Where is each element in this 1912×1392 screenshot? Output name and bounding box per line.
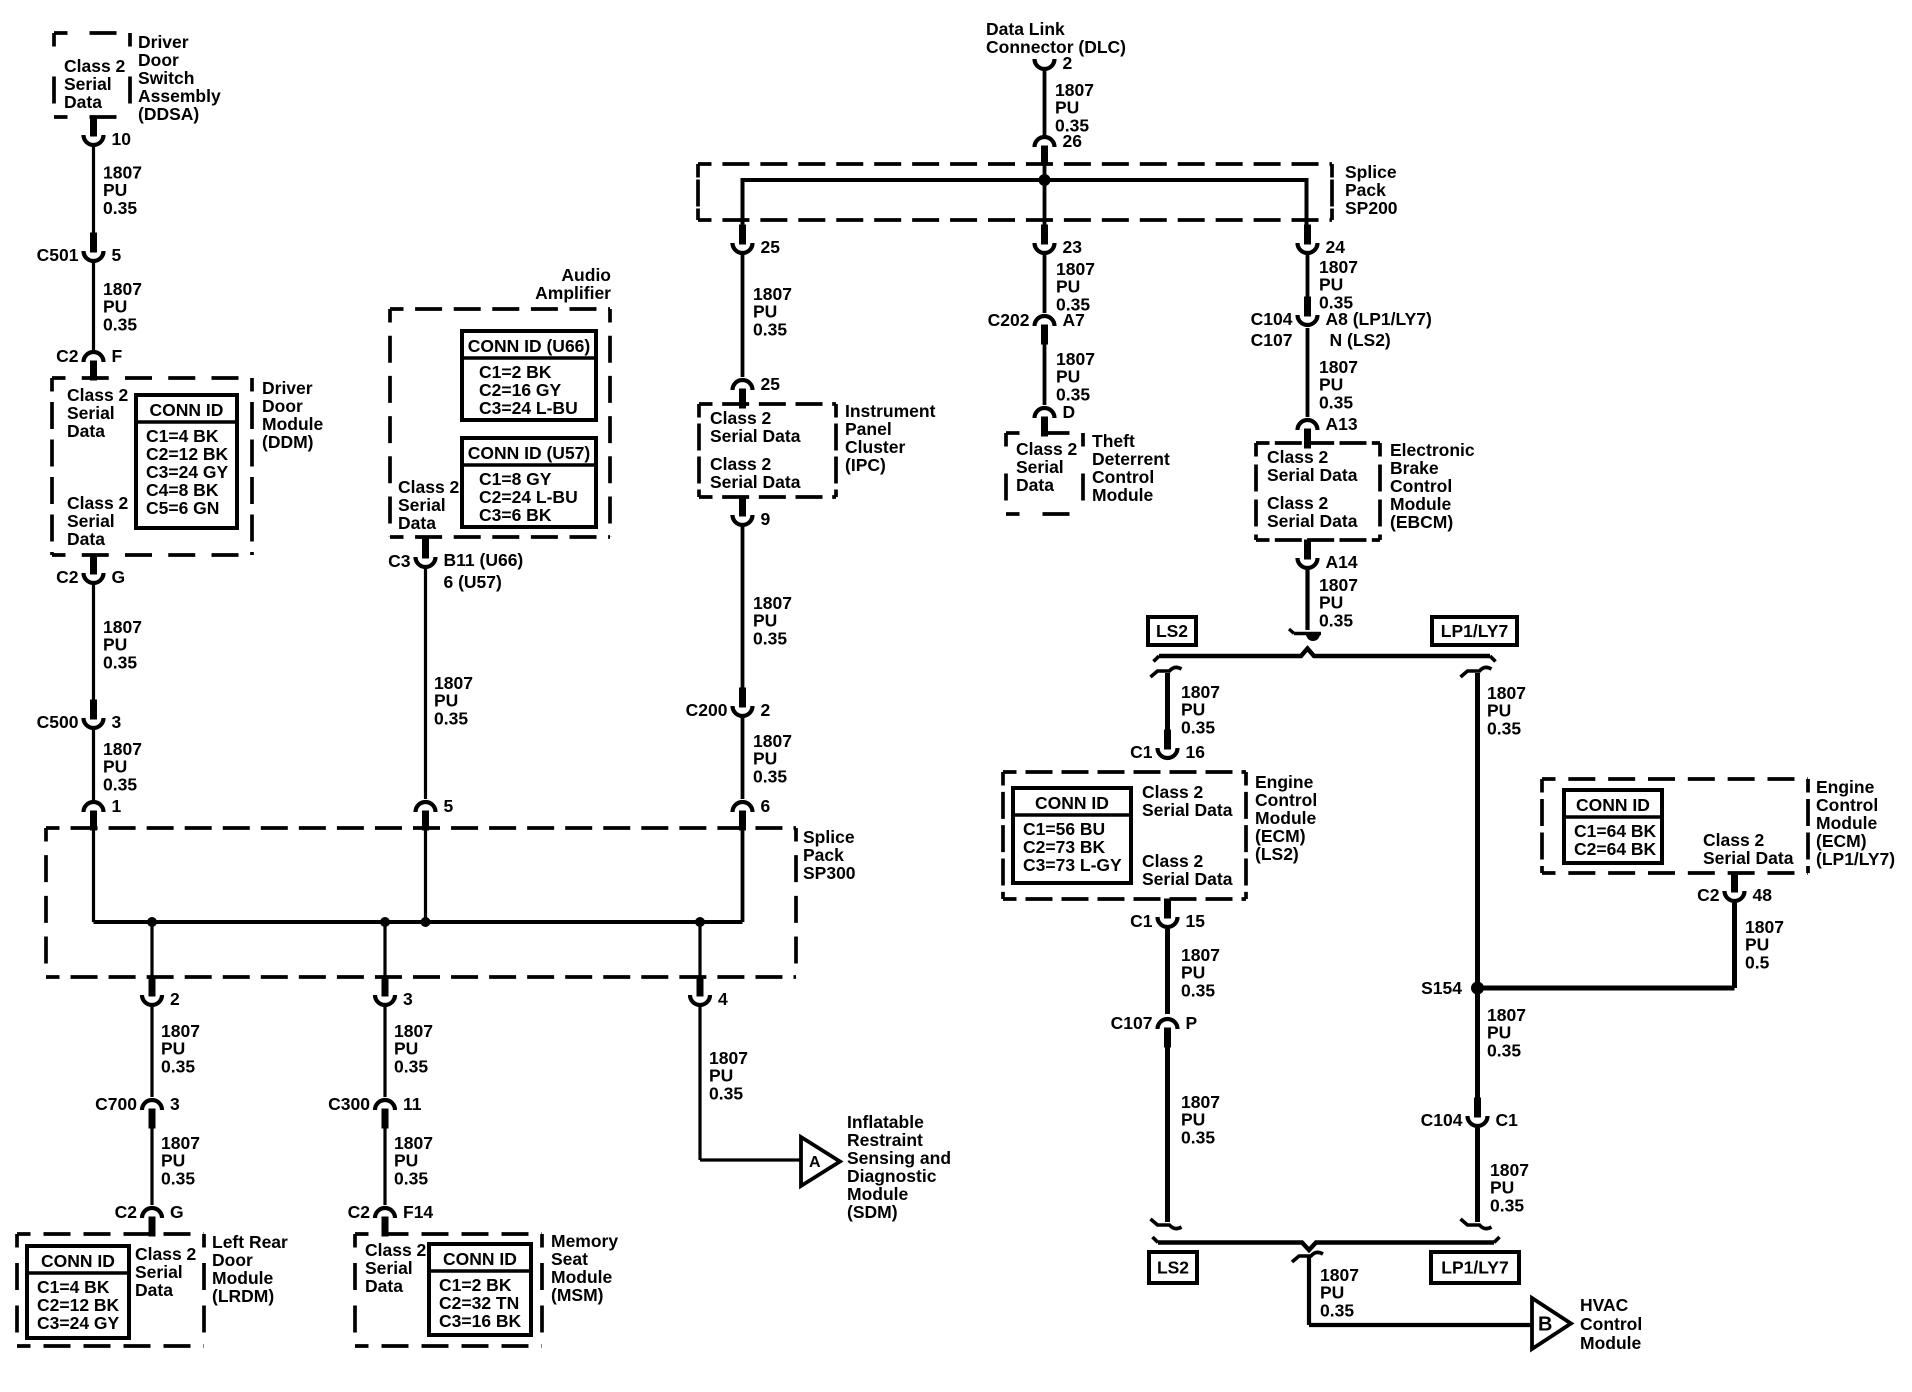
wire C200 to SP300 pin 6 [741,718,745,799]
svg-text:Class 2: Class 2 [1016,439,1078,459]
svg-text:Data: Data [1016,475,1054,495]
svg-text:S154: S154 [1421,978,1462,998]
svg-text:24: 24 [1326,237,1346,257]
wire to HVAC arrow start hook [1292,1252,1323,1262]
svg-text:G: G [170,1202,184,1222]
connector C2 pin 48 (ECM LP1/LY7) [1697,873,1772,906]
svg-text:Module: Module [551,1267,613,1287]
svg-text:(DDM): (DDM) [262,432,314,452]
splice pack box SP300 [46,828,796,977]
svg-text:0.35: 0.35 [709,1083,743,1103]
svg-text:2: 2 [1063,53,1073,73]
connector SP200 pin 24 [1298,225,1346,258]
svg-text:Splice: Splice [1345,162,1397,182]
wire C202 to theft module [1043,344,1047,405]
svg-text:Serial Data: Serial Data [1142,800,1233,820]
svg-text:C700: C700 [95,1094,137,1114]
svg-text:C1=8 GY: C1=8 GY [479,469,552,489]
svg-text:Engine: Engine [1816,777,1875,797]
svg-text:C2=73 BK: C2=73 BK [1023,837,1106,857]
svg-text:Class 2: Class 2 [710,408,772,428]
svg-text:C3=73 L-GY: C3=73 L-GY [1023,855,1122,875]
svg-text:C3=16 BK: C3=16 BK [439,1311,522,1331]
svg-text:11: 11 [403,1094,422,1114]
wire LS2 branch end hook [1151,1219,1182,1229]
svg-text:16: 16 [1186,742,1206,762]
svg-text:Cluster: Cluster [845,437,905,457]
svg-text:LP1/LY7: LP1/LY7 [1441,621,1508,641]
svg-text:C1=4 BK: C1=4 BK [37,1277,110,1297]
svg-text:(LP1/LY7): (LP1/LY7) [1816,849,1895,869]
svg-text:(EBCM): (EBCM) [1390,512,1453,532]
connector IPC pin 9 [733,497,771,530]
svg-text:CONN ID: CONN ID [1035,793,1109,813]
svg-text:A13: A13 [1326,414,1358,434]
svg-text:Seat: Seat [551,1249,588,1269]
svg-text:0.35: 0.35 [1487,718,1521,738]
svg-text:C1=64 BK: C1=64 BK [1574,821,1657,841]
wire DDSA pin10 to C501 [92,147,95,233]
wire SP200-25 to IPC 25 [741,255,745,377]
svg-text:Serial: Serial [398,495,446,515]
svg-text:Class 2: Class 2 [67,493,129,513]
svg-text:Brake: Brake [1390,458,1439,478]
svg-text:Door: Door [262,396,303,416]
svg-text:C500: C500 [37,712,79,732]
net label LS2 (top) [1148,617,1196,645]
svg-text:0.35: 0.35 [161,1168,195,1188]
module box Audio Amplifier [390,309,610,537]
svg-text:Switch: Switch [138,68,194,88]
net label LP1/LY7 (bottom) [1431,1252,1519,1283]
wire brace split to LS2 and LP1/LY7 branches [1154,649,1496,662]
svg-text:C501: C501 [37,245,79,265]
svg-text:23: 23 [1063,237,1083,257]
svg-text:0.5: 0.5 [1745,952,1770,972]
svg-text:Amplifier: Amplifier [535,283,611,303]
svg-text:0.35: 0.35 [1319,392,1353,412]
splice S154 [1471,982,1484,995]
svg-text:(LRDM): (LRDM) [212,1286,274,1306]
svg-text:A8 (LP1/LY7): A8 (LP1/LY7) [1326,309,1432,329]
svg-text:C5=6 GN: C5=6 GN [146,498,219,518]
svg-text:HVAC: HVAC [1580,1295,1629,1315]
svg-text:C107: C107 [1111,1013,1153,1033]
svg-text:A14: A14 [1326,552,1358,572]
wire C500 to SP300 pin 1 [92,730,95,800]
svg-text:25: 25 [761,237,781,257]
svg-text:C3=24 GY: C3=24 GY [37,1313,120,1333]
connector C2 pin G (DDM) [56,555,125,588]
svg-text:C202: C202 [988,310,1030,330]
wire bus to pin 3 [383,922,386,977]
connector C2 pin F14 (MSM) [348,1202,434,1237]
svg-text:Pack: Pack [803,845,844,865]
svg-text:C2=32 TN: C2=32 TN [439,1293,519,1313]
svg-text:0.35: 0.35 [1319,610,1353,630]
wire C2-48 to S154 [1732,903,1737,988]
svg-text:C300: C300 [328,1094,370,1114]
svg-text:C2=16 GY: C2=16 GY [479,380,562,400]
svg-text:15: 15 [1186,911,1206,931]
svg-text:Module: Module [1816,813,1878,833]
svg-text:Control: Control [1255,790,1317,810]
wire C700 to LRDM C2-G [150,1128,153,1205]
wire end symbol at branch split [1289,629,1321,641]
svg-text:3: 3 [403,989,413,1009]
connector C700 pin 3 [95,1094,180,1129]
svg-text:B: B [1538,1314,1552,1336]
wire C501 to C2-F [92,263,95,350]
svg-text:0.35: 0.35 [753,319,787,339]
arrow B to HVAC [1532,1298,1571,1349]
wire bus to pin 4 [698,922,701,977]
wire to HVAC arrow [1307,1257,1311,1325]
svg-text:Class 2: Class 2 [1267,447,1329,467]
connector pin A14 (EBCM) [1298,540,1358,573]
module box DDSA [54,33,130,117]
svg-text:Serial: Serial [67,511,115,531]
wire IPC 9 to C200 [741,527,745,688]
connector C2 pin G (LRDM) [115,1202,184,1237]
svg-text:Theft: Theft [1092,431,1135,451]
wire LS2 branch to C1-16 [1165,673,1170,730]
svg-text:A7: A7 [1063,310,1085,330]
svg-text:Data: Data [365,1276,403,1296]
net label LS2 (bottom) [1149,1252,1197,1283]
svg-text:Data Link: Data Link [986,19,1065,39]
wire bus to pin 2 [150,922,153,977]
CONN ID table DDM [136,395,237,528]
svg-text:Module: Module [1580,1333,1642,1353]
svg-text:4: 4 [718,989,728,1009]
svg-text:CONN ID: CONN ID [150,400,224,420]
svg-text:C3=6 BK: C3=6 BK [479,505,552,525]
junction dots SP300 bus [147,917,157,927]
connector C104/C107 [1251,297,1432,351]
module box DDM [52,378,252,555]
svg-text:C1: C1 [1130,911,1153,931]
CONN ID table U57 [462,438,596,527]
svg-text:Driver: Driver [262,378,313,398]
svg-text:LP1/LY7: LP1/LY7 [1441,1258,1508,1278]
svg-text:C1: C1 [1130,742,1153,762]
svg-text:(MSM): (MSM) [551,1285,603,1305]
svg-text:Serial: Serial [1016,457,1064,477]
connector C104 pin C1 [1421,1098,1518,1131]
CONN ID table ECM LS2 [1013,788,1131,883]
connector SP200 pin 25 [733,225,781,258]
svg-text:D: D [1063,402,1076,422]
wire SP300 pin6 to bus [741,830,745,922]
svg-text:Serial Data: Serial Data [710,426,801,446]
svg-text:C2=12 BK: C2=12 BK [37,1295,120,1315]
svg-text:0.35: 0.35 [394,1056,428,1076]
svg-text:Memory: Memory [551,1231,618,1251]
svg-text:Module: Module [1390,494,1452,514]
svg-text:C2: C2 [115,1202,138,1222]
CONN ID table ECM LP1/LY7 [1564,790,1662,863]
wire C104/C107 to A13 [1306,328,1310,417]
svg-text:0.35: 0.35 [1487,1040,1521,1060]
svg-text:Data: Data [135,1280,173,1300]
svg-text:LS2: LS2 [1156,621,1188,641]
svg-text:2: 2 [761,700,771,720]
svg-text:F14: F14 [403,1202,433,1222]
connector SP300 pin 2 [142,977,180,1010]
wire SP200 bus [743,180,1307,225]
svg-text:Diagnostic: Diagnostic [847,1166,937,1186]
svg-text:Data: Data [67,421,105,441]
connector C300 pin 11 [328,1094,422,1129]
svg-text:Module: Module [847,1184,909,1204]
wire C2-G to C500 [92,585,95,700]
wire SP200-24 to C104/C107 [1306,255,1310,297]
connector C500 pin 3 [37,700,122,733]
svg-text:Serial Data: Serial Data [1142,869,1233,889]
svg-text:0.35: 0.35 [394,1168,428,1188]
wire LP1/LY7 branch end hook [1461,1219,1492,1229]
wire DLC to SP200 pin 26 [1043,71,1047,136]
svg-text:CONN ID (U66): CONN ID (U66) [468,336,591,356]
svg-text:5: 5 [444,796,454,816]
svg-text:C2=24 L-BU: C2=24 L-BU [479,487,578,507]
svg-text:Serial Data: Serial Data [1267,465,1358,485]
net label LP1/LY7 (top) [1432,617,1517,645]
arrow A to SDM [801,1137,840,1186]
svg-text:SP200: SP200 [1345,198,1398,218]
wire LP1/LY7 branch vertical [1475,673,1480,1098]
svg-text:Class 2: Class 2 [1142,782,1204,802]
svg-text:Module: Module [1092,485,1154,505]
CONN ID table MSM [429,1244,531,1335]
svg-text:Sensing and: Sensing and [847,1148,951,1168]
svg-text:G: G [112,567,126,587]
svg-text:Left Rear: Left Rear [212,1232,288,1252]
svg-text:Control: Control [1390,476,1452,496]
svg-text:0.35: 0.35 [1320,1300,1354,1320]
svg-text:C2=64 BK: C2=64 BK [1574,839,1657,859]
svg-text:Serial Data: Serial Data [710,472,801,492]
svg-text:48: 48 [1753,885,1773,905]
module box ECM LP1/LY7 [1542,779,1808,873]
svg-text:Panel: Panel [845,419,892,439]
module box IPC [699,404,836,497]
svg-text:Data: Data [64,92,102,112]
svg-text:Engine: Engine [1255,772,1314,792]
svg-text:SP300: SP300 [803,863,856,883]
svg-text:C1=2 BK: C1=2 BK [479,362,552,382]
svg-text:Module: Module [212,1268,274,1288]
svg-text:C2: C2 [56,567,79,587]
svg-text:C1=4 BK: C1=4 BK [146,426,219,446]
svg-text:Control: Control [1580,1314,1642,1334]
svg-text:Audio: Audio [561,265,611,285]
wire LS2 branch start hook [1151,667,1182,677]
svg-text:Control: Control [1092,467,1154,487]
svg-text:0.35: 0.35 [753,628,787,648]
connector C2 pin F (DDM) [56,346,122,381]
wire SP300-3 to C300 [383,1007,386,1097]
svg-text:(LS2): (LS2) [1255,844,1299,864]
svg-text:Module: Module [262,414,324,434]
connector SP200 pin 26 [1035,131,1083,166]
svg-text:1: 1 [112,796,122,816]
connector DLC pin 2 [1035,53,1073,73]
svg-text:0.35: 0.35 [103,774,137,794]
svg-text:0.35: 0.35 [103,198,137,218]
svg-text:A: A [809,1154,821,1171]
svg-text:Assembly: Assembly [138,86,221,106]
wire C300 to MSM C2-F14 [383,1128,386,1205]
svg-text:3: 3 [112,712,122,732]
CONN ID table U66 [462,331,596,420]
connector SP300 pin 3 [375,977,413,1010]
connector SP200 pin 23 [1035,225,1083,258]
svg-text:Electronic: Electronic [1390,440,1475,460]
svg-text:C4=8 BK: C4=8 BK [146,480,219,500]
svg-text:Class 2: Class 2 [1703,830,1765,850]
svg-text:0.35: 0.35 [434,708,468,728]
svg-text:Class 2: Class 2 [64,56,126,76]
connector pin D (TDCM) [1035,402,1076,437]
svg-text:Serial: Serial [67,403,115,423]
module box EBCM [1256,443,1380,540]
svg-text:Deterrent: Deterrent [1092,449,1170,469]
svg-text:Door: Door [138,50,179,70]
svg-text:(SDM): (SDM) [847,1202,898,1222]
wire bottom brace joining LS2 and LP1/LY7 [1153,1237,1500,1250]
svg-text:0.35: 0.35 [1181,980,1215,1000]
svg-text:Splice: Splice [803,827,855,847]
svg-text:Module: Module [1255,808,1317,828]
svg-text:(IPC): (IPC) [845,455,886,475]
module box MSM [355,1234,542,1346]
wire SP300 pin1 down to bus [92,830,95,922]
svg-text:0.35: 0.35 [103,652,137,672]
module box LRDM [17,1234,204,1346]
CONN ID table LRDM [27,1246,129,1338]
svg-text:CONN ID: CONN ID [41,1251,115,1271]
connector SP300 pin 1 [84,796,122,831]
svg-text:CONN ID (U57): CONN ID (U57) [468,443,591,463]
svg-text:CONN ID: CONN ID [1576,795,1650,815]
svg-text:0.35: 0.35 [1181,1127,1215,1147]
svg-text:0.35: 0.35 [1181,717,1215,737]
wire SP200-23 to C202 [1043,255,1047,313]
module box ECM LS2 [1003,772,1246,899]
svg-text:F: F [112,346,123,366]
module box TDCM [1006,433,1083,514]
connector pin 10 (DDSA) [84,117,132,150]
svg-text:B11 (U66): B11 (U66) [444,550,524,570]
svg-text:(ECM): (ECM) [1255,826,1306,846]
connector C3 (audio amplifier) [388,539,435,572]
connector C1 pin 15 (ECM LS2) [1130,899,1205,932]
svg-text:Data: Data [67,529,105,549]
svg-text:Class 2: Class 2 [135,1244,197,1264]
svg-text:26: 26 [1063,131,1083,151]
svg-text:C104: C104 [1421,1110,1463,1130]
connector SP300 pin 6 [733,796,771,831]
svg-text:Serial: Serial [64,74,112,94]
connector IPC pin 25 [733,374,781,409]
svg-text:10: 10 [112,129,132,149]
svg-text:P: P [1186,1013,1198,1033]
svg-text:Class 2: Class 2 [398,477,460,497]
svg-text:C3=24 L-BU: C3=24 L-BU [479,398,578,418]
svg-text:6: 6 [761,796,771,816]
wire SP300-4 to SDM arrow [698,1007,701,1160]
svg-text:LS2: LS2 [1157,1258,1189,1278]
svg-text:5: 5 [112,245,122,265]
svg-text:C2: C2 [348,1202,371,1222]
svg-text:Driver: Driver [138,32,189,52]
svg-text:Class 2: Class 2 [67,385,129,405]
svg-text:(ECM): (ECM) [1816,831,1867,851]
svg-text:C2: C2 [1697,885,1720,905]
wire SP300-2 to C700 [150,1007,153,1097]
svg-text:0.35: 0.35 [1490,1195,1524,1215]
wire audio amp C3 to SP300 pin 5 [424,569,427,799]
svg-text:Data: Data [398,513,436,533]
svg-text:C2=12 BK: C2=12 BK [146,444,229,464]
svg-text:N (LS2): N (LS2) [1330,330,1391,350]
svg-text:C1=56 BU: C1=56 BU [1023,819,1105,839]
connector SP300 pin 4 [690,977,728,1010]
svg-text:Serial Data: Serial Data [1703,848,1794,868]
svg-text:C1=2 BK: C1=2 BK [439,1275,512,1295]
svg-text:Pack: Pack [1345,180,1386,200]
connector C1 pin 16 (ECM LS2) [1130,730,1205,763]
svg-text:C3: C3 [388,551,411,571]
wire C107-P to bottom bus [1165,1047,1170,1222]
svg-text:Serial: Serial [365,1258,413,1278]
wire SP300 bus [94,920,743,924]
svg-text:C107: C107 [1251,330,1293,350]
junction on SP200 bus [1039,174,1051,186]
svg-text:Class 2: Class 2 [365,1240,427,1260]
svg-text:(DDSA): (DDSA) [138,104,199,124]
wire C1-15 to C107-P [1165,929,1170,1014]
svg-text:0.35: 0.35 [103,314,137,334]
svg-text:Door: Door [212,1250,253,1270]
svg-text:Serial Data: Serial Data [1267,511,1358,531]
svg-text:2: 2 [170,989,180,1009]
svg-text:CONN ID: CONN ID [443,1249,517,1269]
svg-text:C3=24 GY: C3=24 GY [146,462,229,482]
svg-text:Restraint: Restraint [847,1130,923,1150]
svg-text:9: 9 [761,509,771,529]
svg-text:Instrument: Instrument [845,401,936,421]
connector pin A13 (EBCM) [1298,414,1358,449]
wire C104-C1 to bottom bus [1475,1128,1480,1222]
wire SP300 pin5 down to bus [424,830,427,922]
wire LP1/LY7 branch start hook [1461,667,1492,677]
svg-text:0.35: 0.35 [753,766,787,786]
wire A14 down to branch split [1305,570,1309,630]
svg-text:Class 2: Class 2 [1267,493,1329,513]
svg-text:C200: C200 [686,700,728,720]
connector C202 pin A7 [988,310,1085,345]
svg-text:6 (U57): 6 (U57) [444,572,502,592]
connector C501 pin 5 [37,233,122,266]
svg-text:25: 25 [761,374,781,394]
connector C200 pin 2 [686,688,771,721]
svg-text:C1: C1 [1496,1110,1519,1130]
svg-text:3: 3 [170,1094,180,1114]
svg-text:C2: C2 [56,346,79,366]
